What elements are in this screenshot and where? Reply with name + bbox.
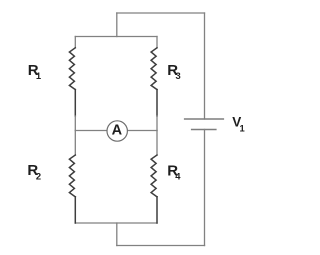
- label R4: [167, 163, 181, 182]
- svg-text:3: 3: [176, 70, 181, 81]
- wire: battery positive lead down right side: [204, 13, 206, 119]
- wire: top bridge rail (node between R1 and R3 tops): [75, 36, 157, 38]
- wire: battery negative lead down to bottom run: [204, 130, 206, 246]
- wire: left branch, middle node to R2: [74, 131, 76, 156]
- wire: left branch, top corner to R1: [74, 37, 76, 48]
- resistor R2: [69, 155, 75, 223]
- wire: right branch into middle node: [156, 116, 158, 131]
- wire: right branch, top corner to R3: [156, 37, 158, 48]
- wire: left branch into middle node: [74, 116, 76, 131]
- resistor R1: [69, 48, 75, 116]
- label R2: [27, 162, 41, 181]
- wire: middle rail right of ammeter: [127, 130, 157, 132]
- svg-text:A: A: [112, 123, 123, 139]
- battery V1: [185, 119, 224, 130]
- wire: right branch, middle node to R4: [156, 131, 158, 156]
- wire: bottom bridge rail (node between R2 and R4 bottoms): [75, 222, 157, 224]
- label R3: [167, 62, 180, 81]
- resistor R4: [151, 155, 157, 223]
- wire: stub from top rail up to outer loop: [116, 13, 118, 37]
- wire: stub from bottom rail down to outer loop: [116, 223, 118, 246]
- label R1: [28, 62, 41, 81]
- svg-text:2: 2: [36, 170, 41, 181]
- ammeter A (galvanometer): [107, 121, 127, 141]
- wire: outer bottom run: [117, 245, 205, 247]
- wire: outer top run to battery: [117, 12, 205, 14]
- label V1: [232, 114, 245, 133]
- svg-text:1: 1: [240, 122, 245, 133]
- wire: middle rail left of ammeter: [75, 130, 107, 132]
- svg-text:1: 1: [36, 70, 41, 81]
- svg-text:4: 4: [175, 171, 181, 182]
- resistor R3: [151, 48, 157, 116]
